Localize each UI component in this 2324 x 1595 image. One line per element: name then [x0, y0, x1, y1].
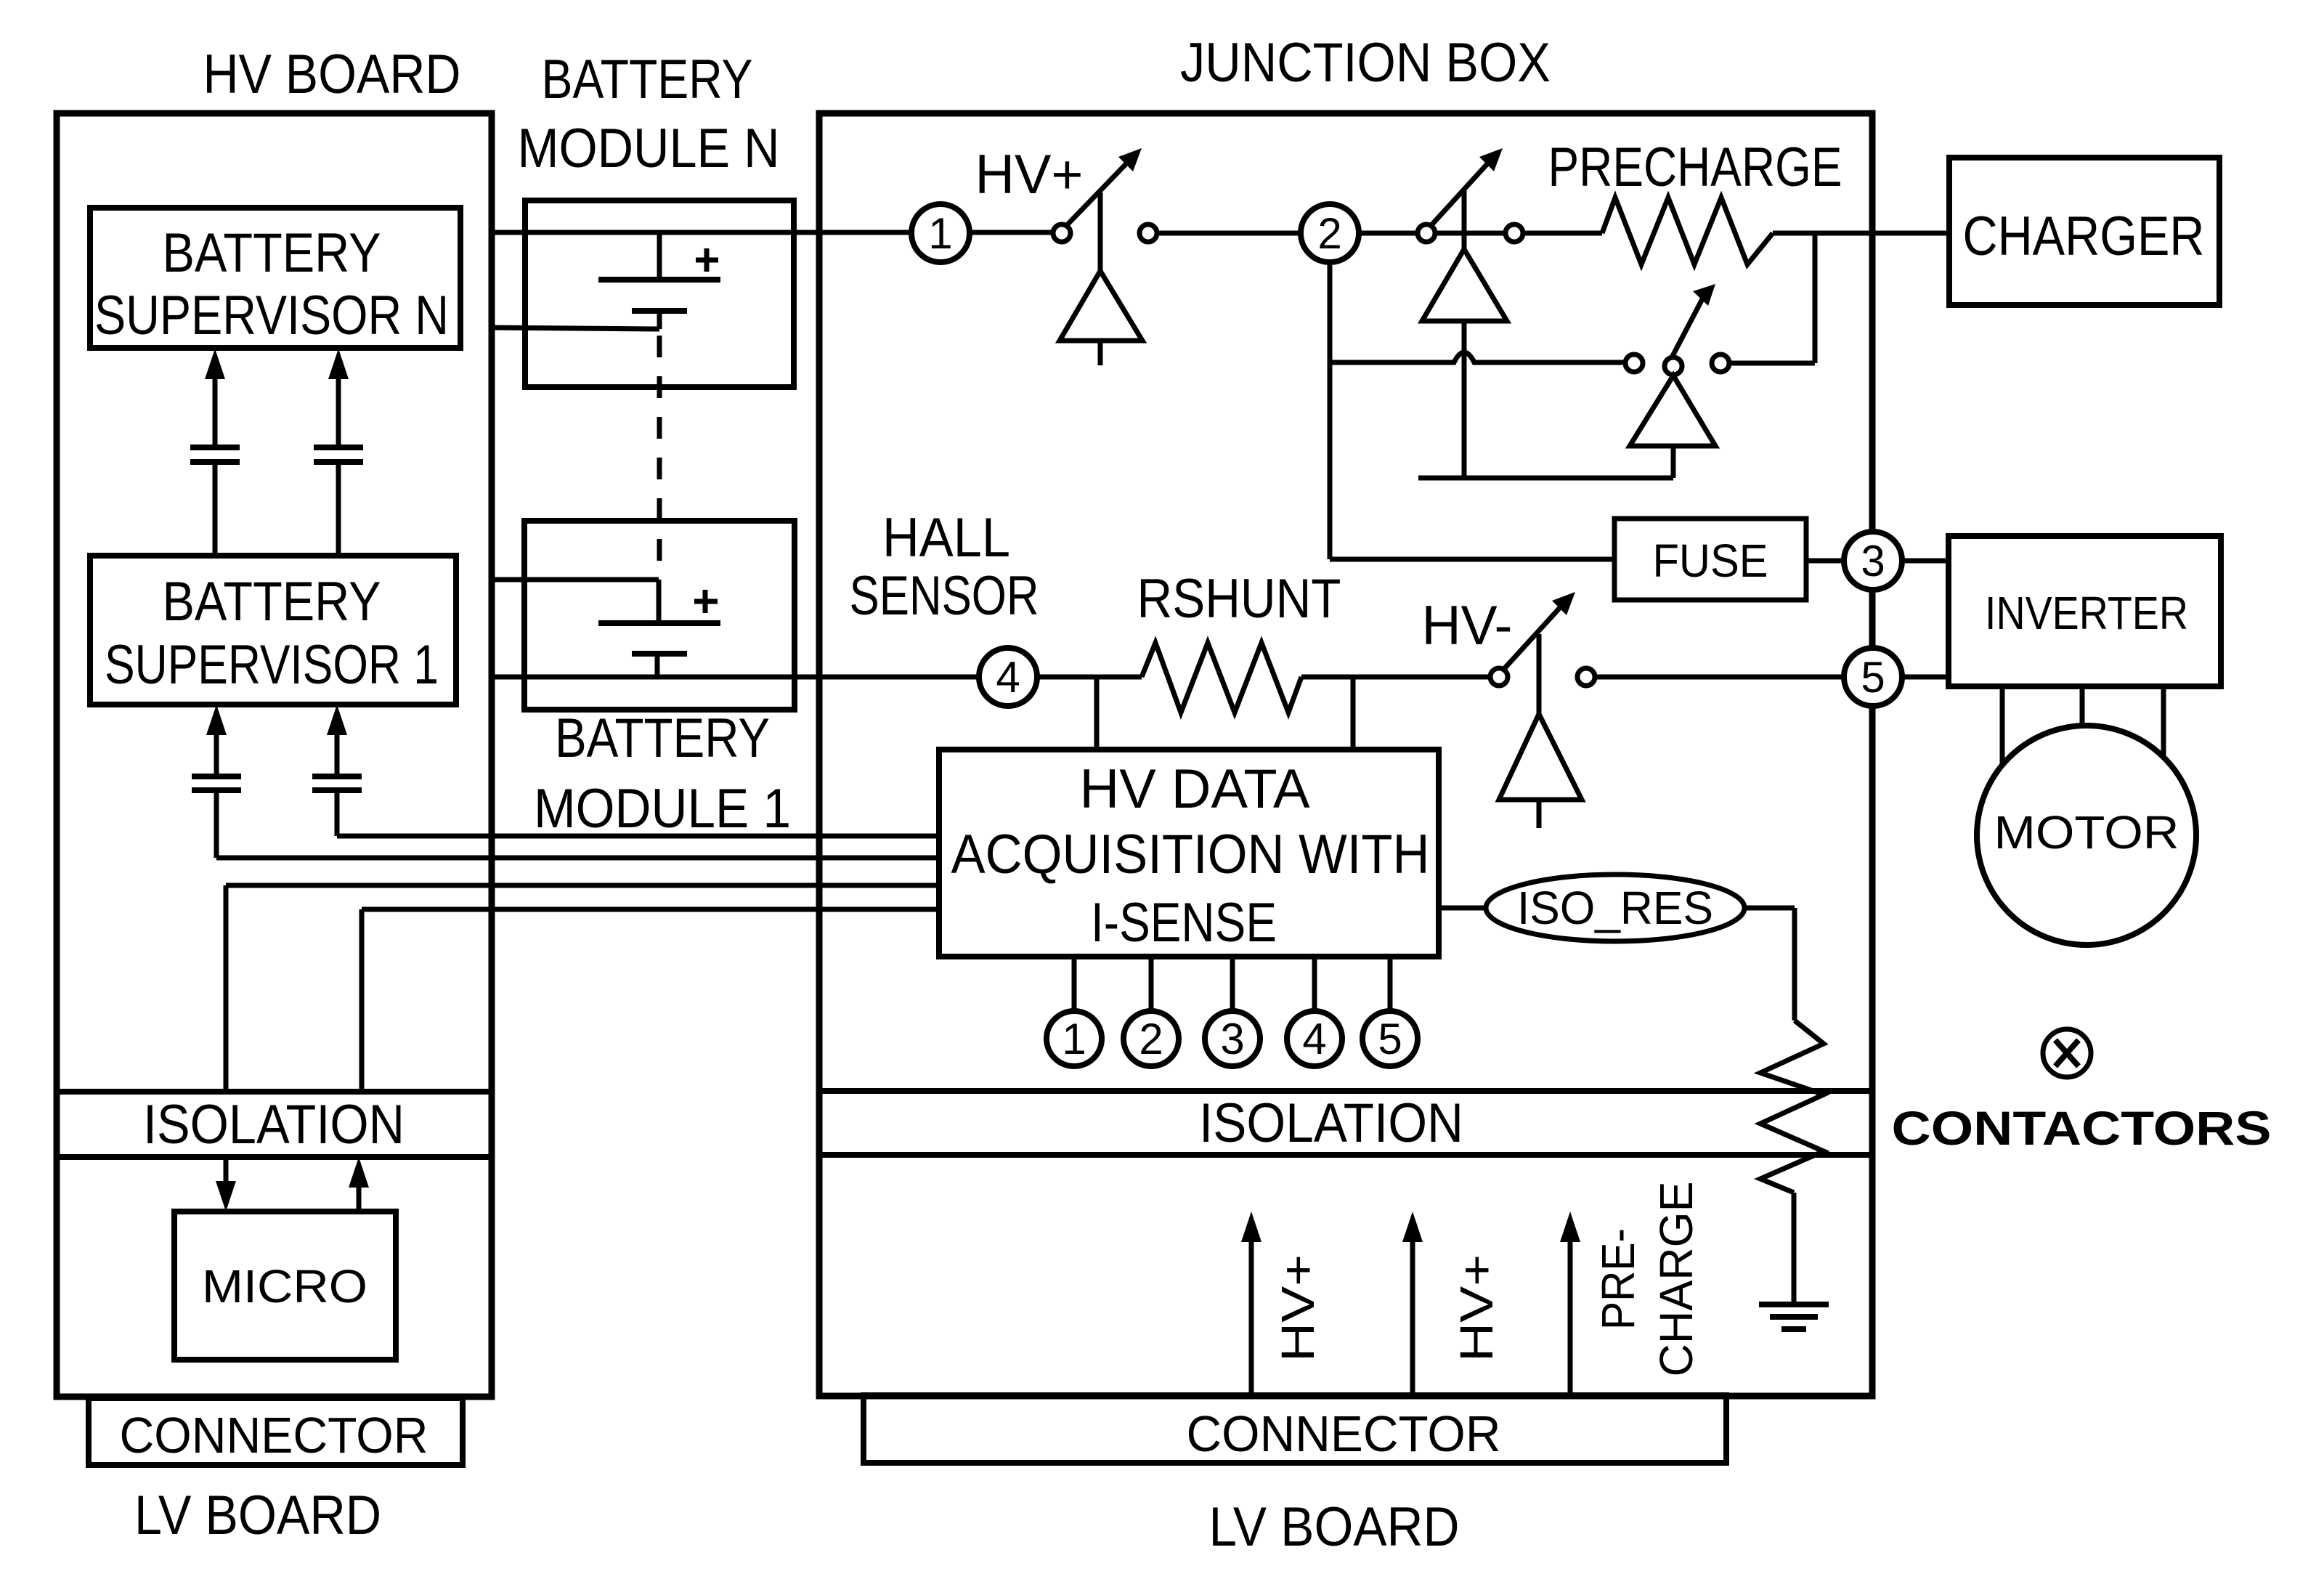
battery symbol module 1 : positive plate: [598, 620, 720, 626]
contactor K1 actuator triangle: [1060, 271, 1142, 341]
svg-text:ISO_RES: ISO_RES: [1517, 882, 1713, 934]
svg-text:JUNCTION BOX: JUNCTION BOX: [1180, 32, 1551, 94]
svg-text:CONNECTOR: CONNECTOR: [120, 1407, 428, 1464]
motor phase wire a: [2000, 686, 2005, 770]
battery module 1 box: [524, 521, 795, 710]
contactor K1 HV+ : left contact: [1053, 224, 1070, 242]
svg-text:ISOLATION: ISOLATION: [1199, 1092, 1463, 1154]
arrow micro to isolation (up): [357, 1183, 362, 1212]
LV signal arrow HV+ (second): [1410, 1238, 1415, 1396]
svg-text:HV+: HV+: [1272, 1254, 1324, 1362]
HV board outline box: [57, 113, 492, 1397]
svg-text:HV BOARD: HV BOARD: [203, 44, 461, 105]
acquisition pin stem 1: [1072, 957, 1077, 1011]
svg-text:4: 4: [1302, 1015, 1326, 1063]
bypass switch K3 stub: [1671, 446, 1676, 478]
isolation resistor (vertical): [1760, 1020, 1824, 1193]
contactor K2 right contact: [1506, 224, 1523, 242]
acquisition pin 1: [1047, 1011, 1102, 1066]
shunt resistor RSHUNT: [1142, 643, 1301, 713]
CHARGER box: [1949, 158, 2219, 305]
acquisition pin 4: [1287, 1011, 1342, 1066]
isolation capacitor right (supervisor 1): [312, 774, 362, 779]
battery symbol module N : positive plate: [598, 277, 720, 283]
acquisition pin stem 5: [1388, 957, 1393, 1011]
motor phase wire b: [2080, 686, 2085, 734]
battery module 1 negative stem: [655, 654, 660, 677]
isolation capacitor left (supervisor 1): [192, 774, 241, 779]
battery supervisor 1 box: [90, 556, 456, 705]
svg-text:HV+: HV+: [1450, 1254, 1503, 1362]
svg-text:ISOLATION: ISOLATION: [143, 1094, 405, 1156]
MOTOR circle: [1977, 726, 2196, 945]
node 4: [979, 648, 1037, 706]
wire isolation resistor to ground: [1792, 1193, 1797, 1303]
svg-text:5: 5: [1861, 653, 1885, 702]
contactor K4 right contact: [1577, 668, 1595, 686]
acquisition pin stem 4: [1312, 957, 1317, 1011]
svg-text:2: 2: [1317, 209, 1341, 258]
sense tap left (rshunt to acquisition): [1094, 677, 1100, 750]
svg-text:CHARGER: CHARGER: [1963, 206, 2205, 267]
node 2 drop wire to fuse: [1328, 233, 1333, 559]
acquisition pin 5: [1362, 1011, 1418, 1066]
arrow into supervisor N (right): [336, 375, 341, 447]
bottom link wire (K2 stem to K3 stub): [1418, 476, 1673, 481]
wire ISO_RES to isolation resistor: [1744, 906, 1795, 911]
LV signal arrow PRE-CHARGE: [1568, 1238, 1573, 1396]
motor phase wire c: [2161, 686, 2166, 763]
arrow into supervisor 1 (right): [335, 731, 340, 776]
svg-text:MOTOR: MOTOR: [1994, 806, 2179, 859]
HV data acquisition box: [939, 750, 1439, 957]
svg-text:SUPERVISOR N: SUPERVISOR N: [94, 285, 449, 346]
contactor K2 actuator triangle: [1422, 249, 1507, 321]
INVERTER box: [1949, 536, 2221, 686]
wire capacitor to supervisor 1 top (right col): [336, 462, 341, 556]
micro box: [174, 1212, 396, 1360]
svg-text:CHARGE: CHARGE: [1650, 1182, 1702, 1377]
arrow isolation to micro (down): [224, 1157, 229, 1185]
svg-text:MODULE 1: MODULE 1: [534, 778, 791, 840]
bypass switch K3 : left contact: [1625, 354, 1643, 372]
wire capacitor to supervisor 1 top (left col): [213, 462, 218, 556]
svg-text:ACQUISITION WITH: ACQUISITION WITH: [951, 824, 1430, 885]
contactor coil symbol X: [2043, 1029, 2091, 1077]
wire to fuse: [1330, 557, 1614, 562]
svg-text:4: 4: [996, 653, 1020, 702]
bypass switch K3 : right contact: [1712, 354, 1729, 372]
svg-text:FUSE: FUSE: [1653, 535, 1768, 587]
arrow into supervisor 1 (left): [214, 731, 219, 776]
svg-text:CONTACTORS: CONTACTORS: [1892, 1101, 2272, 1155]
wire isolation to acquisition (fourth): [359, 909, 365, 1092]
contactor K1 arm with arrow: [1066, 160, 1130, 226]
contactor K4 actuator line: [1537, 634, 1542, 714]
svg-text:HALL: HALL: [882, 507, 1010, 569]
wire node2 to precharge bypass switch (with hop): [1330, 352, 1625, 362]
battery module N positive stem: [657, 232, 662, 280]
contactor K2 stem down: [1462, 321, 1467, 478]
sense tap right (rshunt to acquisition): [1351, 677, 1356, 750]
svg-text:CONNECTOR: CONNECTOR: [1187, 1405, 1501, 1462]
wire HV- contactor to inverter: [1595, 675, 1949, 680]
acquisition pin stem 3: [1230, 957, 1235, 1011]
wire K3 right contact to riser: [1729, 361, 1815, 366]
svg-text:BATTERY: BATTERY: [542, 49, 753, 110]
arrow into supervisor N (left): [213, 375, 218, 447]
battery module 1 positive stem: [657, 580, 662, 623]
svg-text:HV+: HV+: [975, 144, 1084, 206]
isolation barrier band (junction box): [819, 1088, 1872, 1094]
ground symbol: [1759, 1302, 1829, 1307]
svg-text:I-SENSE: I-SENSE: [1091, 892, 1277, 954]
contactor K1 stub: [1098, 341, 1103, 365]
svg-text:MICRO: MICRO: [202, 1260, 367, 1312]
svg-text:HV-: HV-: [1422, 595, 1513, 657]
wire module N negative to HV board: [491, 328, 659, 329]
wire fuse to inverter: [1806, 559, 1949, 564]
svg-text:1: 1: [928, 209, 952, 258]
wire precharge resistor to charger: [1773, 231, 1949, 236]
connector box (LV board right): [864, 1395, 1726, 1463]
contactor K4 actuator triangle: [1499, 714, 1582, 800]
svg-text:RSHUNT: RSHUNT: [1137, 568, 1341, 630]
wire supervisor1 left cap down and right to acquisition: [214, 790, 219, 858]
dashed series link between modules: [657, 336, 662, 577]
svg-text:HV DATA: HV DATA: [1080, 758, 1310, 820]
FUSE box: [1614, 519, 1806, 600]
acquisition pin 3: [1205, 1011, 1260, 1066]
svg-text:SUPERVISOR 1: SUPERVISOR 1: [105, 634, 439, 696]
ISO_RES net ellipse: [1486, 874, 1744, 941]
precharge resistor R precharge: [1602, 198, 1773, 264]
battery symbol module 1 : negative plate: [632, 651, 687, 657]
bypass switch K3 : middle contact: [1665, 357, 1682, 375]
battery module N negative stem: [657, 311, 662, 329]
wire isolation to acquisition (third): [224, 885, 229, 1092]
battery supervisor N box: [90, 208, 460, 348]
LV signal arrow HV+ (first): [1249, 1238, 1254, 1396]
junction box outline: [819, 113, 1872, 1396]
bypass switch K3 actuator triangle: [1630, 376, 1715, 446]
contactor K1 actuator line: [1098, 192, 1103, 271]
contactor K4 stub: [1537, 800, 1542, 828]
svg-text:5: 5: [1378, 1015, 1402, 1063]
battery module N box: [525, 200, 794, 387]
bypass switch K3 arm with arrow: [1672, 293, 1705, 357]
acquisition pin stem 2: [1149, 957, 1154, 1011]
svg-text:PRE-: PRE-: [1592, 1228, 1644, 1330]
svg-text:BATTERY: BATTERY: [555, 707, 770, 769]
HV+ rail wire (contactor to node 2 and precharge): [1157, 231, 1602, 236]
svg-text:SENSOR: SENSOR: [850, 565, 1039, 627]
battery module 1 plus sign: [694, 599, 718, 604]
node 2: [1301, 204, 1359, 262]
svg-text:3: 3: [1220, 1015, 1244, 1063]
riser from bypass switch to HV+ rail: [1813, 233, 1818, 363]
contactor K2 actuator line: [1462, 190, 1467, 249]
svg-text:1: 1: [1062, 1015, 1086, 1063]
isolation capacitor left (supervisor N): [190, 445, 240, 450]
contactor K4 arm with arrow: [1503, 604, 1564, 670]
contactor K4 HV- : left contact: [1490, 668, 1508, 686]
battery symbol module N : negative plate: [632, 308, 687, 314]
connector box (LV board left): [89, 1398, 463, 1465]
wire acquisition to ISO_RES: [1439, 906, 1486, 911]
wire supervisor1 right cap down and right to acquisition: [335, 790, 340, 836]
svg-text:INVERTER: INVERTER: [1985, 587, 2188, 639]
isolation capacitor right (supervisor N): [314, 445, 363, 450]
contactor K1 right contact: [1139, 224, 1157, 242]
svg-text:BATTERY: BATTERY: [163, 222, 381, 284]
HV- rail wire (battery to rshunt): [491, 675, 1142, 680]
svg-text:LV BOARD: LV BOARD: [1209, 1496, 1460, 1558]
wire rshunt to HV- contactor: [1301, 675, 1490, 680]
acquisition pin 2: [1124, 1011, 1179, 1066]
node 3: [1844, 532, 1902, 590]
battery module N plus sign: [696, 258, 718, 263]
HV+ rail wire (battery to contactor): [491, 230, 1053, 235]
svg-text:2: 2: [1139, 1015, 1163, 1063]
svg-text:BATTERY: BATTERY: [163, 571, 381, 633]
svg-text:PRECHARGE: PRECHARGE: [1548, 137, 1842, 198]
contactor K2 arm with arrow: [1431, 160, 1491, 226]
svg-text:MODULE N: MODULE N: [518, 118, 780, 179]
node 1 HV+: [911, 204, 970, 262]
node 5: [1844, 648, 1902, 706]
svg-text:3: 3: [1861, 537, 1885, 585]
contactor K2 precharge : left contact: [1418, 224, 1435, 242]
wire module 1 positive to HV board: [491, 577, 659, 583]
isolation barrier band (HV board): [57, 1089, 492, 1095]
svg-text:LV BOARD: LV BOARD: [134, 1485, 381, 1546]
